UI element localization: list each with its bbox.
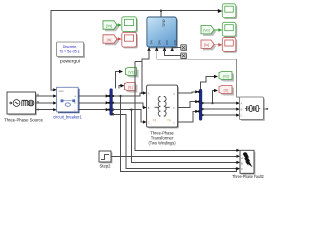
input arrows into U1 bottom: [147, 47, 150, 51]
svg-text:Yg: Yg: [153, 118, 157, 122]
svg-text:Yg: Yg: [167, 118, 171, 122]
wire From Io to Scope3: [214, 44, 219, 46]
wire In1 feed: [142, 50, 149, 93]
goto tag I2 (red, right bus): [219, 86, 234, 96]
data store block (small square) to In4: [181, 45, 187, 51]
svg-text:com: com: [59, 89, 65, 93]
three-phase fault block: [240, 150, 255, 174]
wire Step2 to fault: [111, 155, 237, 157]
bus B2 connection nubs: [198, 91, 204, 116]
From tag Is (red, mid-left): [103, 35, 119, 45]
fault tap wires down: [113, 62, 237, 172]
scope Is (red, mid-left): [122, 32, 138, 48]
wire From Vs to Scope: [117, 24, 120, 26]
svg-text:[V1]: [V1]: [128, 71, 134, 75]
wire In3 feed: [165, 50, 181, 56]
svg-text:[Is]: [Is]: [107, 38, 112, 42]
three-phase transformer block: [147, 85, 179, 128]
svg-text:Three-Phase Source: Three-Phase Source: [4, 118, 44, 123]
goto tag I1 (red, left bus): [124, 83, 137, 93]
wires bus2 to load: [202, 103, 237, 115]
From tag Vo (green, right): [201, 26, 216, 36]
wire From Vo to Scope2: [214, 29, 219, 31]
svg-text:circuit_breaker1: circuit_breaker1: [53, 115, 82, 120]
From tag Vs (green, mid-left): [103, 21, 119, 31]
fault input arrows: [236, 149, 240, 152]
wire bus1 I tap to goto I1: [119, 86, 121, 89]
wires transformer to bus2: [178, 92, 196, 122]
svg-text:In3: In3: [165, 41, 169, 46]
bus B1 connection nubs: [108, 95, 114, 115]
scope Vs (green, mid-left): [122, 17, 138, 33]
node junction In1 tap on phase A: [141, 92, 143, 94]
wires bus1 to transformer: [113, 93, 144, 122]
svg-text:Out1: Out1: [162, 20, 166, 27]
Scope1 (green, top right): [222, 4, 237, 19]
Scope3 (red, right): [222, 38, 237, 53]
wire bus2 V tap to goto V2: [201, 77, 215, 90]
wire In2 feed (long gray): [157, 50, 240, 97]
wire bus1 V tap to goto V1: [116, 72, 120, 89]
goto tag V2 (green, right bus): [219, 72, 234, 82]
data store block (small square) to In3: [181, 53, 187, 59]
wires source to breaker: [36, 96, 55, 110]
svg-text:[V2]: [V2]: [223, 75, 229, 79]
svg-text:A: A: [241, 102, 243, 106]
svg-text:Three-Phase Fault2: Three-Phase Fault2: [232, 174, 264, 179]
wire top control line: [51, 11, 219, 90]
bus bar B1: [110, 89, 113, 116]
svg-text:Step2: Step2: [100, 164, 112, 169]
svg-text:[Vs]: [Vs]: [106, 24, 112, 28]
svg-text:In2: In2: [157, 41, 161, 46]
Scope2 (green, right): [222, 22, 237, 37]
wire arrow into Scope1: [218, 9, 223, 13]
junction dots on taps: [119, 95, 121, 97]
wire In4 feed: [172, 48, 181, 51]
wire From Is to Scope: [117, 38, 120, 40]
svg-text:B: B: [148, 106, 150, 110]
svg-text:In1: In1: [150, 41, 154, 46]
svg-text:Ts = 5e-05 s.: Ts = 5e-05 s.: [60, 49, 81, 54]
goto tag V1 (green, left bus): [126, 68, 139, 78]
three-phase load block: [240, 97, 269, 121]
svg-text:[Vo]: [Vo]: [203, 29, 209, 33]
svg-text:powergui: powergui: [60, 59, 80, 64]
svg-text:[I1]: [I1]: [128, 86, 133, 90]
svg-text:[Io]: [Io]: [204, 43, 209, 47]
svg-text:B: B: [241, 108, 243, 112]
svg-text:C: C: [241, 167, 243, 171]
svg-text:[I2]: [I2]: [224, 89, 229, 93]
From tag Io (red, right): [201, 40, 216, 50]
powergui block: [57, 42, 85, 58]
node junction on top wire: [160, 10, 162, 12]
three-phase source block: [7, 92, 40, 115]
svg-text:A: A: [148, 92, 150, 96]
svg-text:(Two Windings): (Two Windings): [149, 141, 177, 146]
wires breaker to bus1: [78, 96, 106, 110]
svg-text:B: B: [241, 162, 243, 166]
svg-text:C: C: [148, 121, 150, 125]
bus bar B2: [199, 89, 202, 121]
step block Step2: [99, 151, 112, 163]
svg-text:C: C: [241, 114, 243, 118]
wire arrow into breaker com: [53, 88, 57, 91]
svg-text:A: A: [241, 156, 243, 160]
wire bus2 I tap to goto I2: [213, 91, 215, 104]
circuit breaker block: [57, 87, 80, 113]
svg-text:In4: In4: [173, 41, 177, 46]
